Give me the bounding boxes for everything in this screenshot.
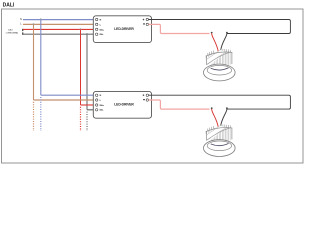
- lamp2 trim ring outer ellipse: [204, 140, 236, 157]
- lamp1 heatsink teeth: [208, 49, 231, 55]
- svg-text:DA-: DA-: [100, 109, 104, 112]
- svg-text:LED-DRIVER: LED-DRIVER: [114, 103, 134, 107]
- U1 terminal L: [96, 23, 98, 25]
- U2 terminal DA-: [96, 109, 98, 111]
- U2 output - symbol: [143, 99, 145, 101]
- wire red dotted continuation: [80, 107, 82, 131]
- node lamp1 + connector dot: [211, 32, 213, 34]
- lamp1 heatsink right edge: [231, 52, 233, 63]
- svg-text:DA+: DA+: [100, 104, 105, 107]
- U2 output + symbol: [143, 94, 145, 96]
- wire N bus (blue) row1: [23, 19, 96, 21]
- downlight LAMP2: [204, 125, 236, 157]
- node red branch junction: [80, 28, 82, 30]
- LED driver U2 box: [93, 91, 151, 118]
- lamp2 band upper edge: [207, 128, 230, 140]
- lamp2 band lower edge: [206, 126, 219, 135]
- lamp1 reflector band: [206, 50, 226, 65]
- U2 terminal N: [96, 94, 98, 96]
- wire lamp2 black pigtail: [221, 109, 228, 127]
- U2 terminal out-: [146, 99, 148, 101]
- U1 terminal out+: [146, 18, 148, 20]
- label DALI CONTROL SIGNAL: [6, 29, 18, 35]
- wire U1 pink output: [149, 24, 210, 33]
- wire U2 pink output: [149, 100, 210, 109]
- node brown branch junction: [33, 23, 35, 25]
- U2 terminal DA+: [96, 104, 98, 106]
- U1 terminal DA+: [96, 28, 98, 30]
- wire red branch vertical: [80, 29, 82, 105]
- lamp2 trim ring inner ellipse: [207, 141, 231, 151]
- svg-text:CONTROL SIGNAL: CONTROL SIGNAL: [6, 32, 18, 35]
- lamp2 heatsink top rim: [206, 128, 232, 132]
- lamp2 heatsink right edge: [231, 128, 233, 139]
- U1 terminal DA-: [96, 33, 98, 35]
- wire red feed to driver2: [81, 104, 96, 106]
- U2 terminal L: [96, 99, 98, 101]
- lamp1 band mid edge: [211, 52, 227, 62]
- wire brown feed to driver2: [34, 99, 96, 101]
- lamp2 band mid edge: [211, 128, 227, 138]
- lamp1 heatsink left edge: [205, 56, 208, 65]
- node grey branch junction: [86, 33, 88, 35]
- wire grey dotted continuation: [86, 112, 88, 131]
- wire lamp1 black pigtail: [221, 33, 228, 51]
- U1 output + symbol: [143, 19, 145, 21]
- node blue branch junction: [40, 18, 42, 20]
- wire DA- bus (grey) row1: [23, 33, 96, 35]
- U1 terminal N: [96, 18, 98, 20]
- U2 terminal out+: [146, 94, 148, 96]
- lamp1 trim ring inner ellipse: [207, 65, 231, 75]
- svg-text:DA+: DA+: [100, 28, 105, 31]
- wire brown branch vertical: [33, 24, 35, 100]
- lamp1 heatsink fins: [207, 51, 230, 64]
- wire blue feed to driver2: [41, 94, 96, 96]
- downlight LAMP1: [204, 49, 236, 81]
- svg-text:DALI: DALI: [8, 29, 13, 32]
- lamp2 reflector band: [206, 126, 226, 141]
- lamp1 band lower edge: [206, 50, 219, 59]
- svg-text:LED-DRIVER: LED-DRIVER: [114, 27, 134, 31]
- svg-text:N: N: [20, 18, 22, 21]
- lamp2 heatsink fins: [207, 127, 230, 140]
- svg-text:DALI: DALI: [3, 2, 15, 8]
- node lamp1 - connector dot: [226, 32, 228, 34]
- U1 output - symbol: [143, 23, 145, 25]
- lamp1 band upper edge: [207, 52, 230, 64]
- U1 terminal out-: [146, 23, 148, 25]
- lamp2 heatsink left edge: [205, 132, 208, 141]
- wire grey branch vertical: [86, 34, 88, 110]
- wire DA+ bus (red) row1: [23, 28, 96, 30]
- wire U1 black output: [149, 20, 291, 34]
- lamp1 trim ring outer ellipse: [204, 64, 236, 81]
- wire blue dotted continuation: [40, 97, 42, 131]
- lamp2 lens arc: [211, 144, 228, 146]
- lamp2 heatsink teeth: [208, 125, 231, 131]
- net label DA+ mark: [22, 29, 23, 31]
- wire L bus (brown) row1: [23, 23, 96, 25]
- lamp1 heatsink top rim: [206, 52, 232, 56]
- wire grey feed to driver2: [87, 109, 96, 111]
- wire U2 black output: [149, 95, 291, 109]
- wire blue branch vertical: [40, 20, 42, 96]
- lamp1 lens arc: [211, 68, 228, 70]
- border frame: [2, 9, 304, 163]
- wire brown dotted continuation: [33, 102, 35, 131]
- LED driver U1 box: [93, 16, 151, 43]
- node lamp2 + connector dot: [211, 107, 213, 109]
- svg-text:DA-: DA-: [100, 33, 104, 36]
- wire lamp2 red pigtail: [212, 109, 219, 127]
- net label DA- mark: [22, 32, 23, 34]
- wire lamp1 red pigtail: [212, 33, 219, 51]
- node lamp2 - connector dot: [226, 107, 228, 109]
